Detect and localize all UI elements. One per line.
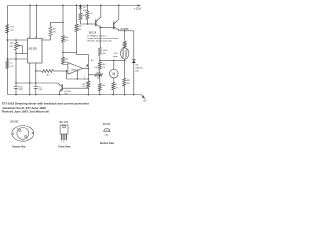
wire U1 pin7 out right [42, 39, 51, 41]
op-amp U2 CA3140 [68, 63, 83, 75]
junction y83 pin1 wire [29, 82, 30, 83]
svg-text:Front View: Front View [58, 145, 71, 149]
wire pin7 riser [50, 37, 52, 41]
svg-text:Jonathan Scott, ETI June 1997: Jonathan Scott, ETI June 1997 [2, 106, 47, 110]
resistor Rb [42, 70, 54, 73]
wire U1 pin1 to bottom rail [29, 63, 31, 95]
junction rail x99 [99, 94, 100, 95]
svg-text:npn: npn [65, 93, 68, 95]
svg-text:e: e [61, 141, 62, 143]
svg-text:5%: 5% [115, 88, 118, 90]
wire R10 to R12 [99, 70, 101, 84]
junction pin5 node [35, 70, 36, 71]
wire motor lead bottom [113, 78, 115, 82]
wire to Q1 base [88, 23, 96, 25]
svg-text:1N4001: 1N4001 [135, 67, 143, 69]
wire top +12V rail [8, 5, 140, 7]
wire op-amp output [83, 67, 89, 69]
wire R11 left lead [88, 74, 94, 76]
wire D1 to R7 [80, 9, 82, 13]
junction pin4 rail [29, 5, 30, 6]
svg-text:2N3055: 2N3055 [10, 120, 19, 123]
wire node C to IC [7, 58, 27, 60]
svg-text:Bottom View: Bottom View [100, 141, 115, 145]
junction rail x36 [35, 94, 36, 95]
svg-text:BD139: BD139 [89, 33, 97, 35]
wire node A to IC pin [7, 39, 27, 41]
wire D2 to rail [133, 63, 135, 95]
svg-text:large heatsink must be fitted,: large heatsink must be fitted, [88, 37, 119, 40]
junction rail x133 [133, 94, 134, 95]
wire U1 pin5 down [35, 63, 37, 86]
resistor R4 [62, 36, 65, 43]
resistor R15 [123, 78, 126, 86]
resistor R5 [62, 57, 65, 64]
TO-3 pin B [19, 129, 21, 131]
svg-text:0V: 0V [144, 100, 147, 103]
wire motor lead top [113, 60, 115, 69]
resistor R11 [95, 73, 103, 76]
wire left rail [7, 6, 9, 95]
wire load bus y60 [100, 59, 125, 61]
+12V terminal arrow [138, 5, 142, 7]
junction Q1c rail [100, 5, 101, 6]
node E junction [62, 52, 63, 53]
junction motor top [113, 60, 114, 61]
svg-text:MKT: MKT [19, 89, 24, 91]
svg-text:NE 555: NE 555 [29, 46, 38, 50]
svg-text:(x2): (x2) [135, 70, 139, 72]
diode D2 [132, 58, 136, 60]
junction V1 top [88, 78, 89, 79]
junction R11 node [99, 74, 100, 75]
wire R5 to inv input [63, 63, 68, 66]
junction Q3 base node [88, 88, 89, 89]
wire Q1 collector to rail [100, 5, 102, 17]
wire R7 to base node [81, 20, 88, 24]
transistor Q1 BD139 [95, 20, 97, 27]
svg-text:5W: 5W [126, 83, 129, 85]
lamp LP1 [121, 48, 129, 59]
wire Q3 emitter to rail [59, 91, 61, 95]
diode D1 1N4148 [79, 6, 82, 9]
svg-text:c: c [66, 141, 67, 143]
junction rail x76 [76, 5, 77, 6]
wire R4 to R5 [62, 43, 64, 58]
svg-text:lamp: lamp [113, 56, 119, 58]
wire pot top lead [15, 40, 17, 42]
junction rail x59 [59, 94, 60, 95]
wire R13 to rail [87, 88, 89, 95]
op IC U1 555 timer box [28, 38, 43, 63]
wire R6 feedback branch down [77, 32, 89, 82]
wire node B to IC [16, 53, 28, 55]
junction rail x88 [88, 94, 89, 95]
svg-text:c: c [30, 127, 31, 129]
junction pin8 rail [36, 5, 37, 6]
capacitor C2 [34, 86, 38, 88]
junction emitter sense [124, 30, 125, 31]
svg-text:1%: 1% [65, 40, 68, 42]
svg-text:5%: 5% [53, 32, 56, 34]
capacitor C1 [14, 86, 18, 88]
resistor R2 on left rail [6, 61, 9, 69]
junction rail x16 [15, 94, 16, 95]
junction rail x29 [29, 94, 30, 95]
junction rail x80 [80, 5, 81, 6]
resistor R8 [86, 11, 89, 20]
wire noninv down [66, 71, 68, 79]
0V terminal arrow [141, 95, 144, 98]
wire U1 pin8 to rail [36, 5, 38, 38]
junction base node [87, 23, 88, 24]
svg-text:1%: 1% [65, 62, 68, 64]
wire Rb row to noninv input [54, 70, 68, 72]
junction rail x63 [62, 5, 63, 6]
junction rail x113 [113, 94, 114, 95]
wire rail to R6 [76, 5, 78, 24]
wire Q2 emitter node [120, 30, 134, 32]
wire R8 to base node [87, 20, 89, 25]
junction pot bottom/wiper [15, 53, 16, 54]
junction load node left [99, 60, 100, 61]
svg-text:1N: 1N [83, 7, 86, 9]
wire C2 to rail [35, 88, 37, 94]
svg-text:1M: 1M [10, 43, 13, 45]
junction Q2c rail [118, 5, 119, 6]
svg-text:ebc: ebc [105, 135, 109, 137]
transistor Q3 BC546 [61, 84, 63, 90]
package TO-126 body [60, 125, 68, 134]
wire tap down to R9 [99, 28, 101, 48]
svg-text:6: 6 [84, 76, 85, 78]
junction y83 pin5 wire [35, 82, 36, 83]
wire bottom 0V rail [8, 94, 142, 96]
transistor Q2 2N3055 [113, 22, 115, 30]
wire rail to D1 [80, 4, 82, 7]
svg-text:b: b [63, 141, 64, 143]
TO-3 mounting holes [12, 133, 13, 134]
wire R14 to rail [112, 90, 114, 95]
junction left-C [7, 58, 8, 59]
package TO-3 outline [12, 126, 34, 142]
junction rail x124 [124, 94, 125, 95]
svg-text:1W: 1W [102, 53, 105, 55]
junction rail x87 [87, 5, 88, 6]
wire op-amp V- stub [76, 71, 78, 79]
svg-text:Revised June 1997, 2nd Macroce: Revised June 1997, 2nd Macrocell [2, 110, 49, 114]
wire R9 to R10 [99, 56, 101, 63]
wire R3 top to node D [51, 22, 64, 26]
TO-126 legs [62, 134, 67, 140]
resistor R12 [98, 84, 101, 92]
junction V- y79 [77, 78, 78, 79]
wire right branch down [133, 31, 135, 60]
svg-text:e: e [27, 139, 28, 141]
junction feedback tap [100, 27, 101, 28]
wire rail to R8 [87, 5, 89, 11]
resistor R9 [98, 48, 101, 56]
wire emitter to RE [124, 31, 126, 42]
svg-text:+12V: +12V [134, 7, 142, 10]
wire ground ref y79 [67, 78, 89, 80]
junction left-A [7, 39, 8, 40]
svg-text:c b e: c b e [105, 130, 110, 132]
resistor R14 [112, 82, 115, 90]
svg-text:5%: 5% [78, 29, 81, 31]
svg-text:ETI-1018 Dimming driver with f: ETI-1018 Dimming driver with feedback an… [2, 102, 90, 106]
resistor R10 [98, 62, 101, 70]
wire curved from y83 bus to Q3 [16, 83, 59, 85]
svg-text:LIN: LIN [9, 46, 13, 48]
junction noninv node [66, 70, 67, 71]
wire node E right [63, 51, 77, 53]
svg-text:5%: 5% [102, 67, 105, 69]
resistor R1 on left rail [6, 25, 9, 34]
svg-text:BD 139: BD 139 [60, 121, 69, 124]
wire Q3 base right [63, 87, 89, 89]
resistor R3 [49, 27, 52, 37]
node D junction [62, 22, 63, 23]
svg-text:BC546: BC546 [103, 123, 111, 126]
wire wiper to node B [21, 46, 23, 54]
potentiometer wiper arrow [18, 45, 23, 47]
svg-text:5%: 5% [10, 66, 13, 68]
svg-text:If 2N3055 used a: If 2N3055 used a [88, 35, 108, 37]
svg-text:Bottom View: Bottom View [12, 145, 26, 149]
wire U1 pin4 to rail [29, 5, 31, 38]
wire R15 to rail [123, 86, 125, 95]
TO-3 pin E [25, 135, 27, 137]
resistor RE [123, 41, 126, 48]
junction pot top [15, 39, 16, 40]
junction y83 left [15, 82, 16, 83]
junction output node [88, 68, 89, 69]
resistor R6 [75, 24, 78, 32]
motor M1 [110, 69, 119, 78]
resistor R7 [79, 13, 82, 20]
resistor R13 [87, 81, 90, 88]
wire rail to R4 [62, 5, 64, 35]
wire R12 to rail [99, 91, 101, 95]
wire Q2 collector to rail [118, 5, 120, 19]
svg-text:4: 4 [84, 79, 85, 81]
wire pin node to Rb [36, 70, 42, 72]
junction pot wire C [15, 58, 16, 59]
wire arrow into op-amp apex [87, 64, 89, 66]
wire lamp bottom [124, 59, 126, 60]
svg-text:b: b [17, 128, 18, 130]
junction lamp node [124, 60, 125, 61]
package TO-92 outline [104, 128, 110, 131]
wire to R15 [124, 60, 126, 78]
svg-text:63V: 63V [39, 89, 43, 91]
potentiometer VR1 1M [15, 42, 18, 50]
svg-text:M: M [112, 72, 115, 76]
svg-text:100R: 100R [102, 50, 107, 52]
svg-text:12V: 12V [114, 53, 118, 55]
svg-text:CA3140: CA3140 [71, 69, 80, 72]
wire pot bottom down to rail [15, 50, 17, 95]
wire Q1 emitter to Q2 base [102, 27, 114, 29]
